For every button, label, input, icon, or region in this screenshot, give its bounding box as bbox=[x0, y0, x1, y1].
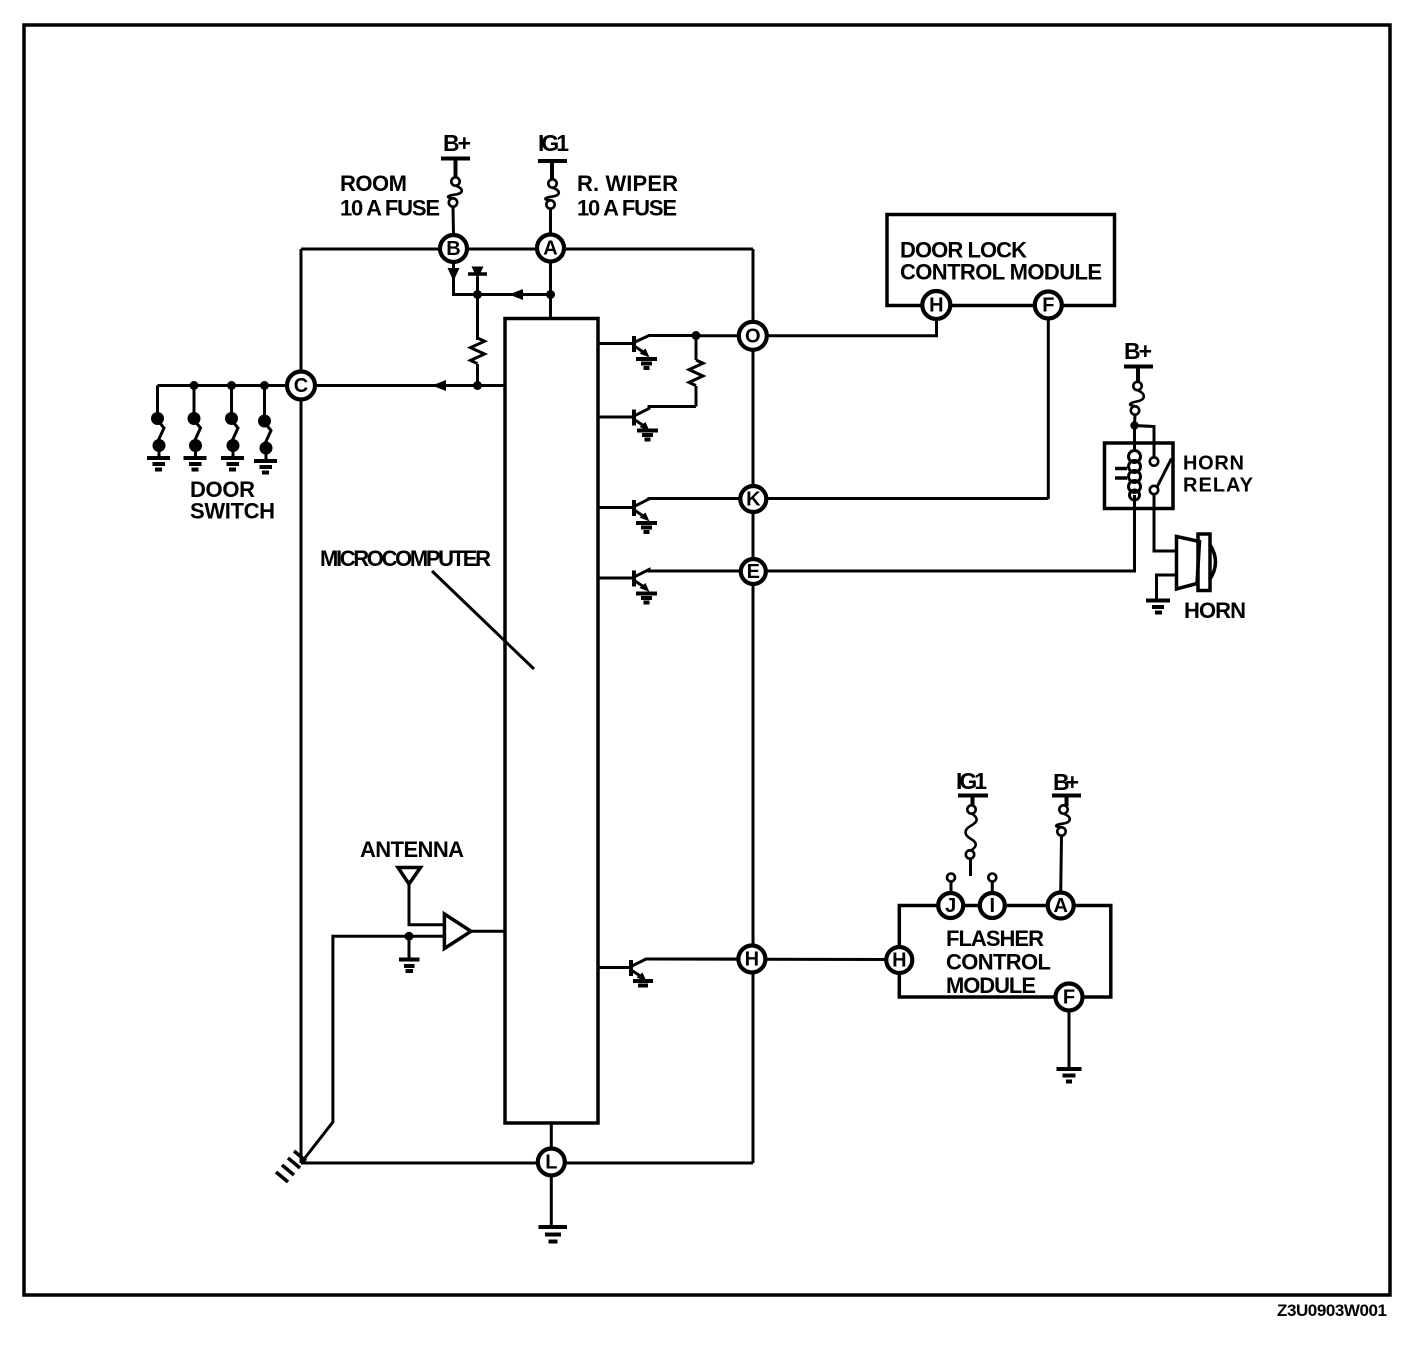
node H flasher bbox=[886, 947, 912, 973]
door switch 3 bbox=[225, 386, 240, 458]
wire L ground bus bbox=[301, 1162, 753, 1165]
svg-text:A: A bbox=[543, 238, 557, 260]
transistor Q5 (H output) bbox=[598, 959, 740, 986]
wire B drop bbox=[454, 262, 551, 295]
fuse B+ flasher bbox=[1059, 805, 1067, 813]
amplifier buffer bbox=[444, 914, 471, 949]
antenna symbol bbox=[398, 868, 421, 885]
wire door switch bus bbox=[158, 384, 302, 387]
svg-text:I: I bbox=[990, 895, 996, 917]
wire antenna feed line bbox=[301, 936, 444, 1163]
svg-text:J: J bbox=[945, 895, 956, 917]
fuse R.WIPER 10A bbox=[548, 179, 556, 187]
battery terminal horn bbox=[1124, 367, 1153, 383]
ground below L bbox=[539, 1227, 568, 1242]
battery terminal IG1 flasher bbox=[958, 796, 988, 807]
node I bbox=[980, 893, 1005, 918]
svg-text:FLASHER: FLASHER bbox=[946, 926, 1044, 951]
battery terminal IG1 bbox=[538, 161, 567, 179]
fuse IG1 flasher bbox=[967, 805, 975, 813]
svg-text:B+: B+ bbox=[1053, 769, 1079, 795]
svg-text:ANTENNA: ANTENNA bbox=[360, 837, 464, 862]
node C bbox=[287, 372, 315, 400]
relay coil bbox=[1129, 451, 1141, 501]
node E bbox=[741, 559, 766, 584]
svg-text:B+: B+ bbox=[443, 130, 471, 156]
svg-text:IG1: IG1 bbox=[538, 130, 569, 156]
ground horn bbox=[1146, 601, 1170, 613]
wire left vertical C line bbox=[300, 249, 303, 1163]
svg-text:H: H bbox=[892, 950, 906, 972]
svg-text:CONTROL MODULE: CONTROL MODULE bbox=[900, 260, 1102, 285]
wire L to chassis ground below bbox=[550, 1163, 553, 1226]
svg-text:E: E bbox=[747, 561, 760, 583]
fuse ROOM 10A bbox=[451, 177, 459, 185]
wire microcomputer bottom to L bbox=[550, 1123, 553, 1163]
junction O collector bbox=[692, 331, 701, 340]
resistor R1 bbox=[471, 338, 485, 364]
svg-text:H: H bbox=[929, 295, 943, 317]
ground door switch 3 bbox=[221, 458, 244, 470]
svg-text:B: B bbox=[446, 238, 460, 260]
svg-text:L: L bbox=[545, 1152, 557, 1174]
door switch 2 bbox=[188, 386, 203, 458]
wire connector pin drop with resistor to node C line bbox=[476, 277, 479, 340]
transistor Q2 bbox=[598, 407, 696, 440]
node F door lock bbox=[1035, 292, 1062, 319]
svg-text:SWITCH: SWITCH bbox=[190, 499, 275, 524]
svg-text:A: A bbox=[1053, 895, 1067, 917]
wire O output to door lock H bbox=[696, 305, 937, 336]
svg-text:B+: B+ bbox=[1124, 338, 1152, 364]
battery terminal B+ bbox=[441, 159, 470, 178]
wire horn to ground bbox=[1157, 575, 1177, 599]
svg-text:O: O bbox=[745, 325, 761, 347]
svg-text:H: H bbox=[745, 949, 759, 971]
node J bbox=[938, 893, 963, 918]
callout line bbox=[432, 571, 534, 669]
svg-text:K: K bbox=[746, 489, 761, 511]
relay switch contacts bbox=[1150, 457, 1158, 465]
node A flasher bbox=[1048, 893, 1074, 919]
svg-text:10 A FUSE: 10 A FUSE bbox=[340, 196, 440, 221]
wire E line to horn relay coil bbox=[649, 508, 1135, 571]
svg-text:RELAY: RELAY bbox=[1183, 475, 1254, 497]
ground door switch 1 bbox=[147, 458, 170, 470]
microcomputer box U1 bbox=[505, 319, 598, 1124]
connector terminal above I bbox=[988, 874, 996, 882]
arrow left on C line bbox=[432, 380, 446, 391]
door switch 4 bbox=[258, 386, 273, 461]
junction antenna ground bbox=[405, 932, 414, 941]
wire A drop to microcomputer bbox=[549, 262, 552, 318]
battery terminal B+ flasher bbox=[1052, 796, 1081, 807]
svg-text:C: C bbox=[294, 375, 308, 397]
transistor Q3 (K output) bbox=[598, 499, 740, 533]
transistor Q1 (O output) bbox=[598, 336, 696, 369]
svg-text:F: F bbox=[1042, 295, 1054, 317]
svg-text:CONTROL: CONTROL bbox=[946, 950, 1051, 975]
svg-text:ROOM: ROOM bbox=[340, 171, 407, 196]
node K bbox=[740, 486, 766, 512]
door switch 1 bbox=[151, 386, 166, 458]
wire to relay coil bbox=[1133, 426, 1136, 453]
svg-text:HORN: HORN bbox=[1184, 598, 1246, 623]
connector pin bar bbox=[468, 272, 487, 276]
wire main right vertical O-K-E-H line bbox=[752, 249, 755, 1163]
junction A drop bbox=[546, 290, 555, 299]
horn speaker bbox=[1177, 534, 1216, 591]
horn relay box bbox=[1105, 443, 1174, 509]
wire H line flasher bbox=[646, 958, 899, 962]
wire K line bbox=[649, 497, 1048, 500]
node B bbox=[440, 235, 467, 262]
svg-text:HORN: HORN bbox=[1183, 453, 1244, 475]
junction R1 to C line bbox=[473, 381, 482, 390]
svg-text:MICROCOMPUTER: MICROCOMPUTER bbox=[320, 546, 491, 571]
wire top bus B/A bbox=[301, 248, 753, 251]
door switch bus junctions bbox=[190, 381, 199, 390]
svg-text:IG1: IG1 bbox=[956, 768, 987, 794]
svg-text:R. WIPER: R. WIPER bbox=[577, 171, 678, 196]
wire to relay switch bbox=[1135, 426, 1155, 459]
ground flasher F bbox=[1057, 1069, 1082, 1082]
ground door switch 4 bbox=[254, 461, 277, 473]
wire door lock F drop to K line bbox=[1047, 305, 1050, 499]
resistor R2 bbox=[695, 336, 698, 361]
wire F flasher to ground bbox=[1068, 1011, 1071, 1069]
ground door switch 2 bbox=[184, 458, 207, 470]
flasher control module box bbox=[899, 906, 1111, 998]
node H door lock bbox=[922, 291, 950, 319]
chassis ground bottom left bbox=[276, 1151, 306, 1182]
node F flasher bbox=[1056, 984, 1083, 1011]
node L bbox=[538, 1149, 565, 1176]
junction horn fuse bbox=[1130, 421, 1138, 429]
svg-text:F: F bbox=[1063, 987, 1075, 1009]
connector terminal above J bbox=[947, 874, 955, 882]
ground antenna bbox=[408, 936, 411, 959]
junction pin drop bbox=[473, 290, 482, 299]
node A bbox=[537, 235, 564, 262]
transistor Q4 (E output) bbox=[598, 570, 740, 603]
fuse horn bbox=[1133, 382, 1141, 390]
door lock control module box bbox=[887, 215, 1115, 306]
wire node C to microcomputer bbox=[301, 384, 505, 387]
node O bbox=[739, 322, 767, 350]
arrow down on B drop bbox=[448, 268, 460, 281]
svg-text:Z3U0903W001: Z3U0903W001 bbox=[1277, 1301, 1387, 1320]
node H main line bbox=[738, 946, 765, 973]
svg-text:10 A FUSE: 10 A FUSE bbox=[577, 196, 677, 221]
arrow left on B-A link bbox=[509, 289, 523, 300]
svg-text:MODULE: MODULE bbox=[946, 973, 1036, 998]
wire relay to horn bbox=[1154, 495, 1176, 552]
